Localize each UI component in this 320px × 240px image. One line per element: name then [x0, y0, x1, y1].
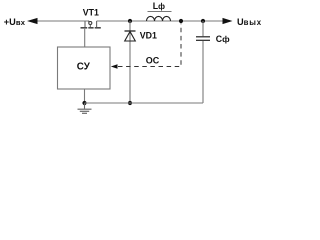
input terminal arrow [27, 18, 38, 24]
svg-text:Сф: Сф [216, 34, 230, 44]
output terminal arrow [223, 18, 233, 24]
inductor Lф core line [148, 11, 172, 13]
ground symbol [78, 103, 92, 113]
capacitor Сф plates [196, 37, 210, 41]
feedback ОС arrow into СУ [111, 64, 118, 68]
wire СУ to ground bus [84, 89, 86, 103]
capacitor Сф wire bottom [202, 41, 204, 103]
junction node OC tap [179, 19, 183, 23]
svg-text:VD1: VD1 [140, 30, 157, 40]
transistor VT1 symbol [81, 21, 101, 28]
feedback ОС dashed wire [118, 24, 181, 67]
svg-text:+Uвх: +Uвх [4, 17, 26, 27]
svg-text:Lф: Lф [153, 1, 165, 11]
junction node Сф top [201, 19, 205, 23]
svg-text:СУ: СУ [77, 62, 91, 73]
block СУ box [58, 47, 111, 89]
wire VT1 gate to СУ box [84, 29, 86, 47]
junction node VD1 top [128, 19, 132, 23]
diode VD1 symbol [125, 31, 136, 41]
svg-text:VT1: VT1 [83, 8, 99, 18]
junction node ground bus left [82, 101, 86, 105]
junction node VD1 bottom [128, 101, 132, 105]
svg-text:Uвых: Uвых [237, 17, 262, 27]
wire VD1 vertical [129, 21, 131, 103]
svg-text:ОС: ОС [146, 55, 160, 65]
wire VT1 to output [97, 20, 223, 22]
capacitor Сф wire top [202, 21, 204, 36]
inductor Lф winding [147, 16, 171, 21]
wire ground bus [85, 102, 204, 104]
wire input to VT1 [38, 20, 90, 22]
